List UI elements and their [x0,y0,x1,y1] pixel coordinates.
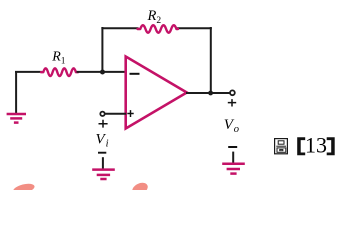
watermark blob left [12,182,35,196]
wire top-right horizontal (R2 to output branch) [176,27,212,29]
svg-text:R2: R2 [147,8,162,26]
wire Vo ground stub [232,152,234,163]
caption bracket 】 [327,137,335,155]
watermark blob right [130,180,149,197]
node B (output junction) [208,91,213,96]
wire from Vi terminal to op-amp plus input [105,113,127,115]
plus polarity at Vi [99,120,108,128]
wire top-left horizontal (node to R2) [101,27,138,29]
wire R1 left segment [15,71,42,73]
ground (below Vo) [222,164,245,174]
terminal Vo (open circle) [230,90,235,95]
wire left ground drop [15,71,17,113]
caption bracket 【 [297,137,305,155]
wire op-amp output [186,92,230,94]
ground (below Vi) [92,170,115,179]
svg-text:13: 13 [305,133,327,158]
resistor R1 [41,68,78,76]
resistor R2 [138,25,179,33]
caption character 圖 (drawn glyph) [275,139,288,154]
op-amp U1 [126,57,187,129]
ground (left, at R1 input) [7,114,26,123]
minus polarity above Vi ground [98,152,106,154]
op-amp plus input symbol [127,110,133,117]
wire R1 right segment to op-amp inverting input [77,71,127,73]
wire right vertical (feedback branch) [210,27,212,93]
svg-text:Vo: Vo [224,117,239,135]
node A (junction of R1, R2 branch, op-amp minus input) [100,70,105,75]
op-amp minus input symbol [130,73,140,75]
terminal Vi (open circle) [100,112,104,116]
svg-text:R1: R1 [51,50,65,66]
wire left vertical (top wire down to inverting node) [101,27,103,72]
wire Vi ground stub [102,157,104,168]
svg-text:Vi: Vi [96,132,109,150]
minus polarity above Vo ground [228,146,237,148]
plus polarity at Vo [228,99,236,106]
